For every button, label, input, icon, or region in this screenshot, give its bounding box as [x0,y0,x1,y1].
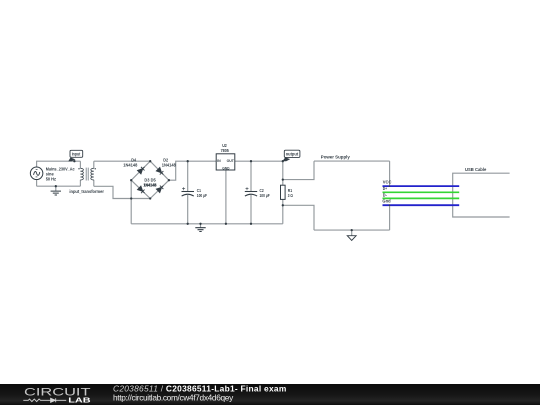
svg-text:LAB: LAB [68,395,90,404]
wire bridge diamond [131,161,169,198]
wire right vertex to rail [169,161,216,180]
svg-text:1N4148: 1N4148 [144,182,157,187]
capacitor C1 bottom plate [182,194,194,196]
wire primary vertical bottom [79,180,81,186]
node R1 top stub [282,178,284,180]
svg-text:D-: D- [383,192,388,197]
node bridge left vertex [130,179,132,181]
node ground2 [199,223,201,225]
diode D4 triangle (top-left edge) [137,169,142,174]
wire secondary vertical bottom [93,180,95,186]
node C2 top [250,160,252,162]
node bridge top vertex [149,160,151,162]
wire stub to power supply bottom [283,205,314,230]
voltage source minus mark [36,176,38,178]
diode D2 bar cross [160,171,164,175]
svg-text:1N4148: 1N4148 [162,163,176,168]
diode D3 triangle (bottom-left edge) [137,186,142,191]
resistor R1 body [281,185,286,199]
wire Gnd blue [383,204,460,206]
transformer T1 secondary winding [91,168,94,180]
svg-text:7805: 7805 [221,148,230,153]
node C1 bottom [187,223,189,225]
wire secondary top rail to bridge [94,160,150,162]
svg-text:Power Supply: Power Supply [321,155,350,160]
wire bottom rail [131,223,283,225]
wire left vertex drop [130,180,132,224]
svg-text:D+: D+ [383,186,388,191]
wire U2 GND drop [225,170,227,224]
svg-text:http://circuitlab.com/cw4f7dx4: http://circuitlab.com/cw4f7dx4d6qey [113,392,234,402]
voltage source V1 circle [30,167,43,180]
svg-text:50 Hz: 50 Hz [46,177,57,182]
wire power supply top edge [314,160,390,162]
logo resistor-diode squiggle [23,399,66,402]
diode D5 triangle (bottom-right edge) [156,187,161,192]
wire ground1 stub [55,186,57,191]
svg-text:input_transformer: input_transformer [69,189,104,194]
svg-text:100 µF: 100 µF [260,193,270,198]
svg-text:VCC: VCC [383,180,392,185]
node ground1 [55,185,57,187]
wire secondary bottom run [94,186,150,198]
wire usb cable bracket [453,173,510,217]
diode D4 bar cross [141,167,145,171]
wire ground3 stub [351,230,353,236]
voltage source plus mark [36,169,38,171]
transformer T1 core [86,168,88,181]
node ground3 [351,229,353,231]
wire VCC blue [383,185,460,187]
wire top rail source loop [37,160,81,162]
output flag box [284,150,300,157]
ground G1 bars [51,191,61,195]
wire power supply bottom edge [314,229,390,231]
diode D5 bar cross [160,186,164,190]
wire primary vertical top [79,161,81,168]
ground G2 bars [195,228,205,232]
svg-text:OUT: OUT [227,159,235,163]
svg-text:USB Cable: USB Cable [465,167,487,172]
node R1 bottom stub [282,204,284,206]
node output attach [282,160,284,162]
capacitor C2 plus [246,187,249,190]
input flag box [70,150,83,157]
wire D- green [383,197,460,199]
svg-text:IN: IN [217,159,221,163]
node Gnd pin [389,204,391,206]
ground G3 triangle [347,236,356,241]
wire power supply right edge lower [389,206,391,230]
wire C2 vertical top [250,161,252,191]
wire secondary vertical top [93,161,95,168]
node ac cross [130,197,132,199]
node C1 top [187,160,189,162]
svg-text:input: input [72,152,81,157]
node input attach [73,160,75,162]
node VCC pin [389,185,391,187]
capacitor C1 plus [182,187,185,190]
regulator U2 body [216,154,235,170]
diode D3 bar cross [141,190,145,194]
svg-text:1N4148: 1N4148 [123,163,137,168]
wire power supply right edge upper [389,161,391,185]
node transformer primary dot [78,168,79,169]
wire source vertical top [36,161,38,168]
transformer T1 primary winding [80,168,83,180]
wire ground2 stub [200,224,202,228]
node bridge bottom vertex [149,197,151,199]
wire C1 vertical top [187,161,189,191]
wire OUT rail [235,160,283,162]
wire source vertical bottom [36,179,38,186]
svg-text:Gnd: Gnd [382,198,391,203]
wire C2 vertical bottom [250,195,252,224]
input flag tail [68,158,75,162]
voltage source sine [34,171,40,175]
diode D2 triangle (top-right edge) [156,167,161,172]
node transformer secondary dot [95,168,96,169]
output flag tail [282,157,290,161]
node bridge right vertex [168,179,170,181]
wire C1 vertical bottom [187,195,189,224]
wire source loop bottom [37,185,81,187]
svg-text:100 µF: 100 µF [197,193,207,198]
svg-text:output: output [286,151,299,156]
capacitor C1 top plate [182,191,195,193]
wire R1 column bottom [282,199,284,223]
node C2 bottom [250,223,252,225]
svg-text:GND: GND [222,166,230,170]
wire R1 column top [282,161,284,185]
node U2 gnd [225,223,227,225]
capacitor C2 top plate [245,191,257,193]
capacitor C2 bottom plate [245,194,257,196]
wire stub to power supply top [283,161,314,180]
svg-text:3 Ω: 3 Ω [288,193,293,198]
wire D+ green [383,191,460,193]
